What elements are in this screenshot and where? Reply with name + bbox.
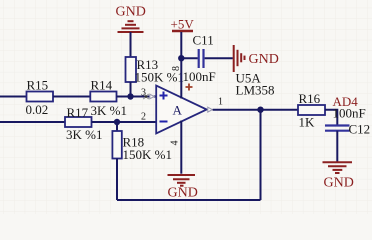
wire R16 to C12	[325, 110, 337, 125]
svg-text:R15: R15	[27, 78, 49, 93]
resistor R16	[298, 91, 325, 130]
svg-text:1: 1	[218, 97, 223, 108]
svg-text:R16: R16	[299, 91, 321, 106]
node junction R13/top row	[127, 93, 133, 99]
wire node to R18	[116, 122, 118, 131]
svg-text:A: A	[173, 103, 183, 118]
wire C12 to ground	[336, 131, 338, 162]
ground GND (bottom right)	[323, 162, 354, 190]
op-amp U5A triangle	[156, 86, 207, 134]
wire feedback bottom run	[117, 199, 261, 201]
wire node to C11	[181, 57, 197, 59]
svg-text:4: 4	[170, 141, 181, 146]
wire R18 to feedback bottom	[116, 159, 118, 201]
svg-text:3K %1: 3K %1	[66, 127, 102, 142]
wire left input to R17	[0, 121, 65, 123]
svg-text:C11: C11	[193, 33, 214, 48]
ground GND (below op-amp pin 4)	[168, 175, 198, 201]
node junction output/feedback	[257, 107, 263, 113]
wire C11 to ground	[205, 57, 233, 59]
resistor R18	[112, 131, 172, 162]
op-amp power plus marker	[186, 84, 193, 91]
wire GND to R13	[130, 32, 132, 57]
node junction +5V/C11/pin8	[178, 55, 184, 61]
svg-text:8: 8	[171, 66, 182, 71]
wire feedback up to output node	[260, 110, 262, 200]
resistor R14	[90, 78, 127, 119]
wire R13 to non-inverting node	[130, 82, 132, 97]
output pin marker	[208, 107, 213, 112]
wire pin 4	[180, 121, 182, 174]
wire pin 8	[180, 58, 182, 98]
svg-text:LM358: LM358	[236, 83, 275, 98]
svg-text:GND: GND	[249, 52, 279, 67]
svg-text:C12: C12	[349, 122, 371, 137]
ground GND (sideways, right of C11)	[234, 45, 279, 72]
svg-text:100nF: 100nF	[183, 69, 216, 84]
wire R14 to op-amp pin 3	[117, 96, 157, 98]
svg-text:1K: 1K	[299, 115, 316, 130]
capacitor C12	[325, 106, 370, 137]
pin 3 end marker	[143, 94, 154, 99]
power +5V	[171, 17, 195, 32]
svg-text:100nF: 100nF	[333, 106, 366, 121]
resistor R13	[126, 57, 184, 85]
svg-text:3K %1: 3K %1	[91, 103, 127, 118]
resistor R17	[65, 105, 102, 142]
ground GND (top power symbol)	[116, 5, 146, 33]
svg-text:R17: R17	[67, 105, 89, 120]
svg-text:2: 2	[141, 112, 146, 123]
wire left input to R15	[0, 96, 27, 98]
wire output to R16	[213, 109, 298, 111]
svg-text:GND: GND	[324, 176, 354, 191]
resistor R15	[26, 78, 54, 118]
wire R17 to op-amp pin 2	[92, 121, 157, 123]
svg-text:R14: R14	[91, 78, 113, 93]
node junction R18/inverting row	[114, 119, 120, 125]
op-amp minus input symbol	[160, 121, 168, 123]
wire R15 to R14	[53, 96, 90, 98]
svg-text:0.02: 0.02	[26, 102, 49, 117]
capacitor C11	[183, 33, 216, 85]
svg-text:GND: GND	[168, 186, 198, 201]
svg-text:150K %1: 150K %1	[123, 147, 172, 162]
op-amp plus input symbol	[160, 92, 168, 100]
svg-text:+5V: +5V	[171, 17, 195, 32]
wire +5V to node	[180, 32, 182, 58]
svg-text:GND: GND	[116, 5, 146, 20]
